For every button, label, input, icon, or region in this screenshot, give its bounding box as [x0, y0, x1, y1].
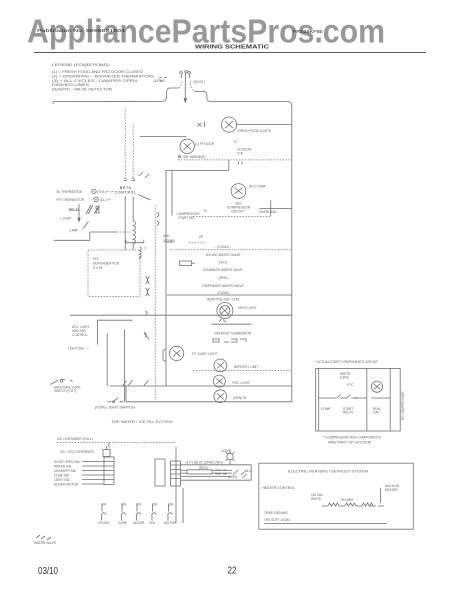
- compressor wire to border: [259, 200, 291, 216]
- svg-text:ELECTRIC HEATERS / DEFROST S: ELECTRIC HEATERS / DEFROST SYSTEM: [288, 470, 368, 474]
- svg-text:ICE: ICE: [238, 152, 243, 156]
- switch lever: [83, 222, 89, 229]
- dashed bus across: [178, 159, 292, 161]
- dashed link to coil: [117, 231, 132, 233]
- riser wire: [175, 447, 177, 523]
- svg-text:FRESH FOOD LIGHTS: FRESH FOOD LIGHTS: [238, 129, 271, 133]
- svg-text:22: 22: [228, 566, 237, 577]
- fuse F1: [103, 446, 110, 457]
- svg-text:LIGHT: LIGHT: [221, 449, 230, 453]
- svg-text:(BRN): (BRN): [228, 475, 237, 479]
- dispenser lamp: [226, 450, 235, 465]
- legend text block: [52, 63, 154, 92]
- svg-text:DISPENSER WATER VALVE: DISPENSER WATER VALVE: [202, 284, 243, 288]
- dashed compressor feed: [193, 216, 270, 218]
- solenoid row labels: [98, 521, 177, 525]
- svg-text:OVERLOAD: OVERLOAD: [259, 210, 277, 214]
- interior switch: [337, 395, 351, 399]
- svg-text:03/10: 03/10: [38, 566, 58, 577]
- svg-text:MOTOR: MOTOR: [164, 521, 177, 525]
- svg-text:TC: TC: [233, 140, 238, 144]
- svg-text:CIRCUIT *: CIRCUIT *: [231, 210, 247, 214]
- svg-text:SW: SW: [152, 503, 157, 507]
- svg-text:(60 HZ.): (60 HZ.): [194, 80, 206, 84]
- svg-text:DISPENSER PCB: DISPENSER PCB: [93, 262, 119, 266]
- dashed stub: [189, 242, 206, 244]
- inline component boxes: [187, 470, 227, 474]
- harness wires right: [181, 465, 252, 480]
- svg-text:FRS26KF6E: FRS26KF6E: [293, 29, 323, 34]
- fz light L2: [169, 346, 183, 360]
- grn lamp L5: [214, 390, 227, 403]
- svg-text:AUGER: AUGER: [133, 521, 145, 525]
- svg-text:WATER VALVE: WATER VALVE: [34, 541, 56, 545]
- main schematic right border: [291, 106, 293, 402]
- svg-text:- (CONN) -: - (CONN) -: [215, 291, 230, 295]
- svg-text:* COMPRESSOR RUN COMPONENTS: * COMPRESSOR RUN COMPONENTS: [323, 436, 381, 440]
- svg-text:HEATER CONTROL: HEATER CONTROL: [262, 486, 295, 490]
- svg-text:(TH1) ⊢··⊢: (TH1) ⊢··⊢: [98, 190, 115, 194]
- svg-text:SW: SW: [101, 503, 106, 507]
- svg-text:ICEMAKER WATER VALVE: ICEMAKER WATER VALVE: [203, 268, 242, 272]
- svg-text:B E T A: B E T A: [120, 186, 132, 190]
- svg-text:115 VAC: 115 VAC: [153, 79, 166, 83]
- solenoid top labels: [101, 503, 173, 507]
- svg-text:WIRING SCHEMATIC: WIRING SCHEMATIC: [195, 44, 269, 50]
- svg-text:SW: SW: [121, 503, 126, 507]
- svg-text:(1) FF DOOR: (1) FF DOOR: [195, 142, 215, 146]
- svg-text:115 VAC WATER VALVE: 115 VAC WATER VALVE: [205, 253, 240, 257]
- step wire to control: [54, 232, 117, 240]
- 5v thermistor row: [57, 189, 115, 194]
- evaporator fan motor M2: [217, 303, 233, 319]
- wire from light to right border: [237, 124, 292, 126]
- electric heaters box: [259, 463, 414, 529]
- svg-text:TC: TC: [203, 209, 208, 213]
- svg-text:FRZ. LIGHT: FRZ. LIGHT: [233, 381, 250, 385]
- harness switch contacts: [144, 213, 159, 340]
- svg-text:(RED): (RED): [199, 466, 208, 470]
- connector P1: [155, 459, 165, 486]
- svg-text:* ACTUAL START COMPONENTS C: * ACTUAL START COMPONENTS CIRCUIT: [315, 360, 378, 364]
- svg-text:CONTROL: CONTROL: [72, 333, 88, 337]
- defrost light L3: [214, 359, 227, 372]
- svg-text:- (VIO) -: - (VIO) -: [217, 261, 229, 265]
- svg-text:(115V): (115V): [340, 376, 349, 380]
- svg-text:5V THERMISTOR: 5V THERMISTOR: [57, 190, 83, 194]
- power cord lead wire: [184, 78, 186, 102]
- mullion heater drop: [378, 488, 384, 506]
- svg-text:LIGHT SW.······: LIGHT SW.······: [68, 347, 90, 351]
- svg-text:FZ. DAIRY LIGHT: FZ. DAIRY LIGHT: [192, 352, 218, 356]
- cord dashed shoulders: [178, 81, 194, 92]
- svg-text:SW: SW: [136, 503, 141, 507]
- svg-text:RELAY: RELAY: [343, 411, 354, 415]
- svg-text:CRUSHER SW.: CRUSHER SW.: [54, 469, 77, 473]
- svg-text:J1 P1 (BLK) 115VAC (WH): J1 P1 (BLK) 115VAC (WH): [185, 461, 223, 465]
- svg-text:COMP.: COMP.: [321, 407, 331, 411]
- svg-text:WATER SW.: WATER SW.: [54, 465, 72, 469]
- terminal node: [179, 156, 181, 158]
- connector arcs on harness: [146, 276, 150, 296]
- svg-text:SOL: SOL: [149, 521, 156, 525]
- header rule: [34, 52, 426, 54]
- connector P2: [171, 461, 181, 486]
- terminal ticks: [123, 178, 135, 181]
- svg-text:C: C: [145, 247, 148, 251]
- fan lower stub: [219, 319, 226, 323]
- water valve label stack: [202, 245, 243, 295]
- svg-text:(RC) COMP.: (RC) COMP.: [249, 185, 267, 189]
- adaptive defrost bus line: [167, 294, 292, 296]
- svg-text:TEMP. RADIANT: TEMP. RADIANT: [264, 511, 288, 515]
- switch marks on bus: [123, 380, 149, 386]
- wire to compressor branch: [171, 170, 173, 215]
- switch row wires: [82, 462, 104, 485]
- relay arrow wire: [78, 204, 80, 221]
- svg-text:DOOR OPEN SW.: DOOR OPEN SW.: [54, 460, 80, 464]
- svg-text:(FZR) LIGHT SWITCH: (FZR) LIGHT SWITCH: [95, 406, 136, 410]
- svg-text:Publication No. 5995581504: Publication No. 5995581504: [37, 28, 126, 33]
- svg-text:ADAPTIVE DEF. CTRL: ADAPTIVE DEF. CTRL: [207, 298, 240, 302]
- fzr light L4: [213, 375, 225, 387]
- fresh food light L1: [221, 117, 236, 132]
- interior node dots: [355, 397, 357, 399]
- bus line: [110, 385, 292, 387]
- bus vertical right of switch row: [182, 488, 184, 523]
- wire junction drop: [166, 160, 229, 386]
- junction mark: [198, 122, 205, 128]
- svg-text:ARE PART OF SYSTEM: ARE PART OF SYSTEM: [328, 441, 371, 445]
- actual circuit box: [316, 368, 401, 431]
- svg-text:C O N T R O L: C O N T R O L: [115, 191, 136, 195]
- dashed line defrost: [193, 370, 292, 372]
- svg-text:CUBE SW.: CUBE SW.: [54, 474, 70, 478]
- compressor motor M1: [231, 184, 246, 199]
- svg-text:± 100W: ± 100W: [60, 217, 71, 221]
- svg-text:FF2: FF2: [93, 257, 99, 261]
- moisture switch: [51, 380, 73, 385]
- svg-text:THE SOFT LEVEL: THE SOFT LEVEL: [264, 518, 291, 522]
- svg-text:LIGHT SW.: LIGHT SW.: [54, 478, 70, 482]
- wire drop pair: [107, 329, 124, 402]
- switch label rows: [54, 460, 80, 487]
- svg-text:AUGER MOTOR: AUGER MOTOR: [54, 483, 79, 487]
- svg-text:20 OHM: 20 OHM: [341, 498, 353, 502]
- dashed wire from control (right): [132, 124, 134, 179]
- svg-text:ICE / H2O DISPENSER: ICE / H2O DISPENSER: [60, 450, 95, 454]
- main schematic top border with cord bump: [53, 88, 292, 106]
- solenoid switch row: [101, 505, 173, 521]
- svg-text:DEFROST LIMIT: DEFROST LIMIT: [234, 365, 258, 369]
- wire drop right: [250, 465, 252, 480]
- svg-text:DENOTE - VALVE DETECTOR: DENOTE - VALVE DETECTOR: [52, 87, 113, 91]
- svg-text:- (RED) -: - (RED) -: [217, 276, 230, 280]
- connector J1: [104, 457, 114, 485]
- svg-text:SW. HARNESS: SW. HARNESS: [183, 155, 205, 159]
- svg-text:CAP.: CAP.: [373, 411, 380, 415]
- svg-text:(CL.) ⊢: (CL.) ⊢: [100, 198, 111, 202]
- svg-text:K X IN: K X IN: [93, 266, 103, 270]
- bracket wire: [57, 442, 176, 444]
- svg-text:WHITE: WHITE: [311, 497, 321, 501]
- svg-text:SW: SW: [168, 503, 173, 507]
- underline: [264, 523, 387, 525]
- bracket tick: [108, 443, 110, 448]
- coil K2: [140, 247, 142, 259]
- dashed vertical harness wire: [154, 205, 156, 400]
- long dashed bus: [171, 249, 292, 251]
- svg-text:CRUSH: CRUSH: [98, 521, 110, 525]
- tiny wire labels: [185, 461, 252, 479]
- svg-text:FF2 THERMISTOR: FF2 THERMISTOR: [57, 198, 85, 202]
- water valve marks bottom left: [36, 535, 51, 540]
- svg-text:- - (CONN) - -: - - (CONN) - -: [213, 245, 232, 249]
- svg-text:(GRN) W: (GRN) W: [233, 396, 246, 400]
- main bottom border: [126, 386, 292, 402]
- relay contacts: [86, 205, 99, 214]
- interior wire: [319, 397, 391, 399]
- svg-text:(DOOR): (DOOR): [163, 239, 175, 243]
- power cord plug prongs: [180, 70, 191, 78]
- auto light box top: [97, 320, 132, 344]
- heater resistors: [328, 503, 373, 506]
- control left wire down: [124, 196, 126, 250]
- svg-text:2P: 2P: [199, 235, 203, 239]
- heater wire: [322, 505, 376, 507]
- dashed wire from control to top border (left): [124, 108, 126, 179]
- dispenser pcb dashed box: [88, 250, 140, 297]
- freezer light switch in border: [108, 398, 124, 402]
- left long bus: [70, 314, 292, 316]
- svg-text:DEFROST TERMINATOR: DEFROST TERMINATOR: [215, 332, 252, 336]
- ff2 thermistor row: [57, 197, 111, 202]
- box divider lines: [367, 368, 390, 431]
- svg-text:2 AMP: 2 AMP: [69, 229, 78, 233]
- legend side marks: [159, 78, 167, 82]
- svg-text:VENT LIGHT: VENT LIGHT: [238, 306, 257, 310]
- svg-text:ICE CONTAINER (FULL): ICE CONTAINER (FULL): [57, 437, 93, 441]
- defrost wire: [211, 323, 251, 325]
- resistor R1: [180, 261, 195, 265]
- bus tick marks: [239, 162, 243, 165]
- svg-text:SWITCH (CUT): SWITCH (CUT): [54, 389, 76, 393]
- svg-text:ADC: ADC: [163, 234, 170, 238]
- run capacitor motor: [371, 381, 382, 392]
- ff door switch lamp: [180, 139, 194, 153]
- svg-text:RC COMPRESSOR: RC COMPRESSOR: [401, 391, 405, 420]
- solenoid coil: [133, 197, 135, 250]
- svg-text:CUBE: CUBE: [118, 521, 127, 525]
- crossbar above pcb: [126, 240, 144, 243]
- connector symbols right of control: [138, 172, 151, 200]
- svg-text:HEATER: HEATER: [385, 488, 398, 492]
- svg-text:LEGEND (CONDITIONS):: LEGEND (CONDITIONS):: [52, 63, 110, 67]
- wire stub top right of control: [140, 135, 187, 137]
- svg-text:THE WATER / ICE FILL SYSTEM: THE WATER / ICE FILL SYSTEM: [112, 420, 173, 424]
- bracket left: [163, 349, 166, 362]
- svg-text:PTC: PTC: [347, 383, 354, 387]
